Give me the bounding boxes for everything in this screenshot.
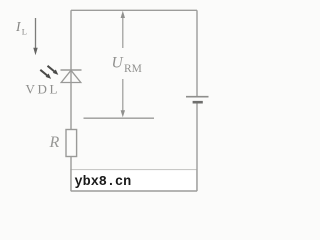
- label U_RM: [112, 55, 142, 76]
- label I_L: [15, 19, 27, 37]
- photodiode VDL cathode bar: [61, 69, 82, 71]
- wire top: [71, 9, 197, 11]
- photodiode VDL triangle: [61, 70, 81, 82]
- wire right upper: [196, 10, 198, 96]
- svg-text:ybx8.cn: ybx8.cn: [75, 175, 132, 190]
- battery negative plate: [193, 101, 203, 104]
- U_RM arrowhead down: [121, 110, 125, 117]
- wire right lower: [196, 103, 198, 192]
- svg-text:R: R: [49, 134, 60, 151]
- U_RM bottom reference bar: [84, 117, 155, 119]
- wire left: [70, 10, 72, 191]
- U_RM arrowhead up: [121, 11, 125, 18]
- resistor R body: [66, 130, 77, 157]
- I_L current arrow: [33, 18, 37, 55]
- U_RM dimension line lower segment: [122, 79, 124, 111]
- photodiode light arrow 1: [48, 66, 59, 75]
- svg-text:U: U: [112, 55, 125, 72]
- photodiode light arrow 2: [40, 70, 51, 79]
- svg-text:L: L: [22, 27, 27, 37]
- U_RM dimension line upper segment: [122, 14, 124, 48]
- watermark box: [71, 170, 197, 191]
- battery positive plate: [186, 96, 209, 98]
- wire bottom: [71, 190, 197, 192]
- svg-text:VDL: VDL: [26, 82, 61, 97]
- svg-text:RM: RM: [124, 63, 142, 75]
